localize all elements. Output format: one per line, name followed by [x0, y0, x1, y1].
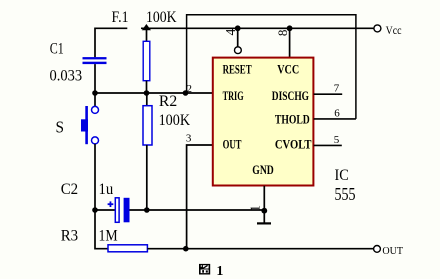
svg-text:5: 5: [334, 134, 340, 146]
arrow at R1 top: [142, 24, 151, 30]
capacitor C2 polarity +: [108, 201, 114, 207]
svg-text:R2: R2: [159, 93, 177, 110]
node switch column / C2 junction: [92, 207, 98, 213]
wire C2 left lead: [95, 209, 115, 211]
wire GND pin1 down: [263, 186, 265, 223]
wire F.1 segment from C1 top: [95, 28, 127, 57]
node R1/R2 junction: [144, 90, 150, 96]
caption 图 glyph: [199, 264, 210, 275]
wire C2 right to GND pin: [130, 209, 265, 211]
resistor R1: [143, 41, 150, 80]
terminal OUT: [374, 246, 381, 253]
wire OUT pin3 down to bottom rail: [187, 145, 213, 249]
svg-text:1: 1: [216, 264, 223, 279]
capacitor C1: [83, 57, 107, 64]
node GND junction: [261, 208, 267, 214]
svg-text:C2: C2: [61, 181, 78, 198]
svg-text:0.033: 0.033: [50, 68, 83, 85]
wire pin6 THOLD: [314, 118, 356, 120]
svg-text:OUT: OUT: [382, 245, 403, 257]
svg-text:1u: 1u: [99, 181, 114, 198]
svg-text:RESET: RESET: [223, 63, 252, 77]
svg-text:1: 1: [248, 205, 263, 212]
svg-text:VCC: VCC: [277, 63, 299, 77]
svg-text:DISCHG: DISCHG: [272, 89, 309, 103]
wire C1 bottom lead to switch: [94, 64, 96, 106]
svg-text:2: 2: [187, 83, 193, 95]
svg-text:S: S: [56, 118, 65, 137]
wire R1 bottom lead: [146, 81, 148, 93]
wire pin4 from rail: [237, 28, 239, 46]
wire pin8 from rail: [289, 28, 291, 57]
wire R2 top lead: [146, 93, 148, 106]
op-amp/IC U1 555 box: [213, 58, 314, 186]
RESET pin circle: [235, 47, 242, 54]
wire bottom OUT rail: [147, 248, 373, 250]
ground: [257, 222, 271, 224]
resistor R2: [143, 106, 152, 145]
svg-text:555: 555: [335, 184, 356, 204]
capacitor C2: [115, 198, 129, 223]
svg-text:C1: C1: [50, 41, 64, 58]
wire TRIG (pin2): [95, 92, 213, 94]
svg-text:IC: IC: [335, 167, 349, 184]
svg-text:100K: 100K: [146, 9, 177, 26]
node C1/TRIG junction: [92, 90, 98, 96]
svg-text:GND: GND: [252, 163, 273, 177]
wire R2 bottom lead: [146, 145, 148, 210]
svg-text:1M: 1M: [99, 227, 118, 244]
svg-text:TRIG: TRIG: [223, 89, 244, 103]
wire feedback pin2 to pin6: [187, 15, 356, 119]
switch S: [81, 106, 99, 144]
svg-text:CVOLT: CVOLT: [275, 138, 312, 152]
svg-text:R3: R3: [61, 227, 78, 244]
svg-text:8: 8: [275, 30, 290, 37]
wire R1 top lead: [146, 29, 148, 42]
node pin8 junction: [287, 25, 293, 31]
node pin4 junction: [235, 25, 241, 31]
node TRIG/feedback junction: [183, 90, 189, 96]
wire pin5 CVOLT stub: [314, 144, 342, 146]
svg-text:6: 6: [334, 108, 340, 120]
wire pin7 DISCHG stub: [314, 93, 343, 95]
wire main Vcc rail: [141, 27, 374, 29]
resistor R3: [108, 245, 147, 252]
node OUT column / bottom rail junction: [183, 246, 189, 252]
svg-text:3: 3: [186, 133, 192, 145]
svg-text:100K: 100K: [159, 112, 191, 129]
svg-text:7: 7: [334, 82, 340, 94]
svg-text:F.1: F.1: [112, 9, 129, 26]
svg-text:OUT: OUT: [223, 138, 242, 152]
terminal Vcc: [374, 25, 381, 32]
svg-text:THOLD: THOLD: [275, 112, 310, 126]
node R2/C2/GND wire junction: [144, 207, 150, 213]
svg-text:Vcc: Vcc: [386, 23, 402, 37]
svg-text:4: 4: [223, 28, 238, 35]
wire switch bottom down to R3 corner: [95, 144, 108, 249]
